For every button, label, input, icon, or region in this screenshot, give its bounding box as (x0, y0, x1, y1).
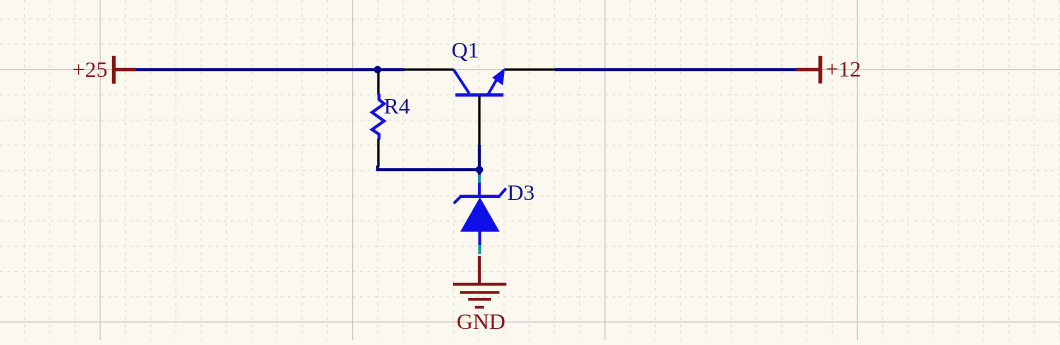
Q1 base pin (478, 96, 480, 145)
power port +25 (112, 56, 136, 84)
svg-text:D3: D3 (507, 180, 535, 205)
svg-text:+12: +12 (826, 57, 861, 82)
D3 cathode pin highlight (478, 175, 481, 183)
Q1 emitter pin (505, 68, 555, 70)
D3 anode pin highlight (478, 245, 481, 254)
ground GND stem (478, 256, 481, 284)
Q1 collector pin (403, 68, 453, 70)
diode D3 cathode pin (478, 183, 481, 196)
D3 zener tick left (454, 196, 461, 203)
diode D3 anode pin (478, 231, 481, 245)
junction node A (374, 66, 381, 73)
diode D3 anode triangle (460, 197, 500, 232)
svg-text:R4: R4 (384, 94, 410, 119)
wire W2: node A to Q1 collector pin (376, 68, 404, 71)
wire W5: R4 to node B (378, 166, 480, 170)
wire W6: node B to D3 cathode (478, 170, 481, 175)
resistor R4 body (372, 94, 384, 140)
ground GND bars (453, 283, 506, 309)
wire W3: Q1 emitter to port +12 (555, 68, 797, 71)
resistor R4 pin 2 (377, 139, 379, 167)
wire W4: Q1 base to node B (478, 145, 481, 170)
junction node B (476, 166, 483, 173)
transistor Q1 body (454, 68, 505, 95)
wire W1: port +25 to node A (136, 68, 378, 71)
svg-text:+25: +25 (72, 57, 107, 82)
power port +12 (797, 56, 823, 84)
D3 zener tick right (500, 188, 507, 196)
svg-text:Q1: Q1 (452, 37, 480, 62)
svg-text:GND: GND (457, 309, 506, 334)
resistor R4 pin 1 (377, 71, 379, 95)
diode D3 cathode bar (460, 195, 501, 198)
